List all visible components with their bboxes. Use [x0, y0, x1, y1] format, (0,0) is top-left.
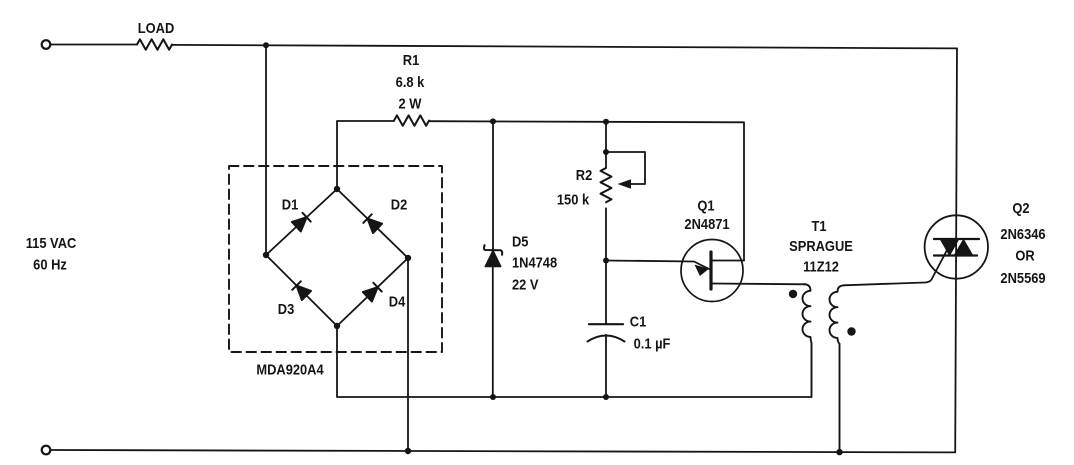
svg-text:D4: D4: [389, 293, 406, 310]
transistor Q1 UJT circle: [681, 240, 743, 302]
svg-text:150 k: 150 k: [557, 191, 589, 208]
wire R2 bottom to emitter node and C1: [605, 208, 607, 324]
Q2 bottom bar: [934, 254, 977, 256]
svg-text:D1: D1: [282, 196, 299, 213]
transformer T1 primary coil: [802, 284, 811, 397]
transformer T1 secondary coil: [830, 285, 845, 452]
svg-text:R2: R2: [576, 166, 593, 183]
svg-text:2N4871: 2N4871: [684, 215, 729, 232]
node bridge top vertex: [334, 186, 340, 192]
node R2 top: [603, 119, 609, 125]
wire bridge edge B-R: [337, 258, 408, 326]
resistor R2: [601, 168, 612, 202]
wire C1 bottom: [605, 335, 607, 397]
wire bridge edge T-R: [337, 189, 408, 258]
node emitter junction: [603, 258, 609, 264]
terminal bottom-left: [42, 446, 51, 455]
svg-text:C1: C1: [630, 313, 647, 330]
Q1 emitter arrowhead: [695, 265, 710, 276]
wire bridge edge L-T: [266, 189, 337, 255]
svg-text:22 V: 22 V: [512, 276, 539, 293]
resistor LOAD: [137, 39, 172, 49]
wire R1 rail to Q1 B2 corner: [430, 121, 744, 260]
diode D2: [363, 214, 382, 233]
svg-text:T1: T1: [811, 217, 826, 234]
svg-text:Q2: Q2: [1012, 199, 1029, 216]
node C1 bottom on common rail: [603, 394, 609, 400]
wire Q1 emitter from R2 node: [606, 261, 711, 271]
wire Q2 main vertical: [955, 48, 957, 452]
svg-text:0.1 µF: 0.1 µF: [634, 335, 671, 352]
wire D5 branch vertical: [492, 121, 494, 397]
capacitor C1 bottom curved plate: [588, 336, 625, 342]
wire junction down to bridge left vertex: [265, 45, 267, 255]
node D5 top: [490, 118, 496, 124]
node right vertex line at bottom rail: [405, 448, 411, 454]
svg-text:2N6346: 2N6346: [1000, 225, 1045, 242]
node secondary bottom on bottom rail: [836, 449, 842, 455]
wire top rail left segment: [50, 44, 137, 46]
svg-text:115 VAC: 115 VAC: [26, 234, 77, 251]
terminal top-left: [42, 40, 51, 49]
svg-text:MDA920A4: MDA920A4: [256, 361, 324, 378]
svg-text:6.8 k: 6.8 k: [396, 73, 425, 90]
Q1 base bar: [709, 252, 712, 289]
svg-text:OR: OR: [1015, 247, 1034, 264]
diode D3: [292, 281, 311, 300]
node D5 bottom on common rail: [490, 394, 496, 400]
wire R1 rail corner down to bridge top vertex: [337, 121, 394, 189]
R2 wiper arrowhead: [618, 179, 632, 189]
wire R2 wiper loop: [606, 152, 645, 184]
svg-text:2 W: 2 W: [399, 95, 423, 112]
wire Q1 B1 lead to T1 primary: [712, 283, 807, 286]
wire bridge bottom vertex down then common rail to T1: [337, 326, 811, 397]
diode D4: [363, 283, 382, 302]
wire bridge edge L-B: [266, 255, 337, 326]
svg-text:D3: D3: [278, 300, 295, 317]
node junction top rail to bridge: [263, 42, 269, 48]
svg-text:R1: R1: [403, 51, 420, 68]
wire Q1 B2 lead: [712, 260, 745, 262]
transistor Q2 triac circle: [925, 215, 988, 278]
T1 secondary phase dot: [847, 327, 855, 335]
node bridge bottom vertex: [334, 323, 340, 329]
svg-text:Q1: Q1: [697, 197, 714, 214]
node bridge right vertex: [405, 255, 411, 261]
wire R2 top stub: [605, 122, 607, 168]
T1 primary phase dot: [789, 290, 797, 298]
svg-text:1N4748: 1N4748: [512, 254, 557, 271]
wire bridge right vertex down to bottom rail: [407, 258, 409, 451]
capacitor C1 top plate: [589, 323, 623, 325]
zener D5 cathode bar: [484, 245, 502, 255]
svg-text:D2: D2: [391, 196, 408, 213]
node bridge left vertex: [263, 252, 269, 258]
bridge dashed box MDA920A4: [229, 166, 442, 352]
node R2 wiper tap: [603, 149, 609, 155]
diode D1: [292, 213, 311, 232]
svg-text:SPRAGUE: SPRAGUE: [789, 237, 853, 254]
resistor R1: [394, 115, 429, 125]
svg-text:2N5569: 2N5569: [1000, 269, 1045, 286]
Q2 left triangle: [941, 240, 959, 256]
svg-text:60 Hz: 60 Hz: [33, 256, 67, 273]
wire bottom rail: [50, 450, 954, 452]
wire top rail to right corner: [172, 45, 957, 49]
Q2 top bar: [934, 238, 979, 240]
Q2 right triangle: [955, 240, 973, 256]
svg-text:11Z12: 11Z12: [803, 258, 839, 275]
wire secondary top to Q2 gate: [844, 242, 952, 286]
svg-text:LOAD: LOAD: [138, 19, 174, 36]
zener D5 triangle: [485, 251, 501, 267]
svg-text:D5: D5: [512, 233, 529, 250]
